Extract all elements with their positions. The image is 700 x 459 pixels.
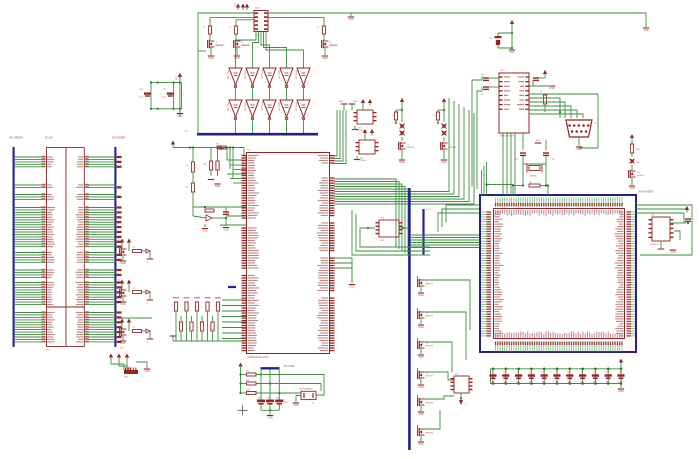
svg-text:74HC14N: 74HC14N <box>278 102 280 111</box>
svg-text:GND: GND <box>509 52 514 54</box>
svg-text:GND: GND <box>629 188 634 190</box>
svg-text:74HC14N: 74HC14N <box>295 102 297 111</box>
svg-text:GND: GND <box>418 387 423 389</box>
svg-text:GND: GND <box>339 101 344 103</box>
svg-text:C5: C5 <box>529 372 531 374</box>
svg-text:C12: C12 <box>619 372 622 374</box>
svg-text:GND: GND <box>618 391 623 393</box>
svg-text:C25: C25 <box>258 398 261 400</box>
svg-text:100n: 100n <box>541 381 545 383</box>
svg-text:C6: C6 <box>542 372 544 374</box>
svg-text:GND: GND <box>441 162 446 164</box>
svg-text:GND: GND <box>223 230 228 232</box>
svg-text:C8: C8 <box>567 372 569 374</box>
svg-text:BSP296: BSP296 <box>407 147 415 149</box>
svg-text:GND: GND <box>418 295 423 297</box>
svg-text:C3: C3 <box>503 372 505 374</box>
svg-text:GND: GND <box>418 414 423 416</box>
svg-text:JP3 JUMP: JP3 JUMP <box>284 366 295 368</box>
svg-text:100n: 100n <box>618 381 622 383</box>
svg-text:GND: GND <box>536 140 541 142</box>
svg-text:100n: 100n <box>580 381 584 383</box>
svg-text:GND: GND <box>353 101 358 103</box>
svg-text:BSP296: BSP296 <box>426 284 434 286</box>
svg-text:GND: GND <box>418 357 423 359</box>
svg-text:100n: 100n <box>490 381 494 383</box>
svg-text:GND: GND <box>349 287 354 289</box>
svg-text:GND: GND <box>549 88 554 90</box>
svg-text:GND: GND <box>576 149 581 151</box>
svg-text:C9: C9 <box>580 372 582 374</box>
svg-text:GND: GND <box>418 327 423 329</box>
svg-text:74HC14N: 74HC14N <box>244 70 246 79</box>
svg-text:GND: GND <box>120 263 125 265</box>
svg-text:100n: 100n <box>605 381 609 383</box>
svg-text:74HC14N: 74HC14N <box>295 70 297 79</box>
svg-text:TPIC6B: TPIC6B <box>359 160 366 162</box>
svg-text:PC104: PC104 <box>45 137 53 140</box>
svg-text:SIC ADJ F: SIC ADJ F <box>650 243 660 246</box>
svg-text:GND: GND <box>177 116 182 118</box>
svg-text:GND: GND <box>120 343 125 345</box>
svg-text:GND: GND <box>202 231 207 233</box>
svg-text:74HC14N: 74HC14N <box>227 102 229 111</box>
svg-text:100n: 100n <box>529 381 533 383</box>
svg-text:C4: C4 <box>516 372 518 374</box>
svg-text:BSP296: BSP296 <box>449 147 457 149</box>
svg-text:JP14 HEDER: JP14 HEDER <box>638 191 653 194</box>
svg-text:C2: C2 <box>491 372 493 374</box>
svg-text:TPIC6B: TPIC6B <box>357 130 364 132</box>
svg-text:GND: GND <box>399 162 404 164</box>
svg-text:JP2 HEDER: JP2 HEDER <box>112 137 126 140</box>
svg-text:BSS123: BSS123 <box>330 45 338 47</box>
svg-text:GND: GND <box>267 418 272 420</box>
svg-text:74HC14N: 74HC14N <box>261 70 263 79</box>
svg-text:C10: C10 <box>593 372 596 374</box>
svg-text:C26: C26 <box>267 398 270 400</box>
svg-text:GND: GND <box>348 19 353 21</box>
svg-text:100n: 100n <box>284 402 288 404</box>
svg-text:20MHz: 20MHz <box>530 176 536 178</box>
svg-text:BSS123: BSS123 <box>637 175 645 177</box>
svg-text:74HC14N: 74HC14N <box>227 70 229 79</box>
svg-text:100n: 100n <box>567 381 571 383</box>
svg-text:LED: LED <box>636 162 640 164</box>
svg-text:GND: GND <box>215 186 220 188</box>
svg-text:BSS123: BSS123 <box>216 45 224 47</box>
svg-text:100n: 100n <box>516 381 520 383</box>
svg-text:GND: GND <box>144 371 149 373</box>
svg-text:74HC14N: 74HC14N <box>244 102 246 111</box>
svg-text:74HC14N: 74HC14N <box>278 70 280 79</box>
svg-text:JP1 HEDER: JP1 HEDER <box>9 137 23 140</box>
svg-text:100n: 100n <box>503 381 507 383</box>
svg-text:GND: GND <box>208 58 213 60</box>
svg-text:C27: C27 <box>276 398 279 400</box>
svg-text:BSP296: BSP296 <box>426 376 434 378</box>
svg-text:BSP296: BSP296 <box>426 346 434 348</box>
svg-text:C11: C11 <box>606 372 609 374</box>
svg-text:BSP296: BSP296 <box>426 433 434 435</box>
svg-text:AT89C51AC2-RLI: AT89C51AC2-RLI <box>248 355 269 359</box>
svg-text:GND: GND <box>293 405 298 407</box>
svg-text:100n: 100n <box>593 381 597 383</box>
svg-text:GND: GND <box>322 58 327 60</box>
svg-text:GND: GND <box>670 252 675 254</box>
svg-text:74HC14N: 74HC14N <box>261 102 263 111</box>
svg-text:C7: C7 <box>555 372 557 374</box>
svg-text:BSP296: BSP296 <box>426 403 434 405</box>
svg-text:SW PUSHBUT: SW PUSHBUT <box>299 389 313 391</box>
svg-text:VCC: VCC <box>176 75 178 80</box>
svg-text:GND: GND <box>643 30 648 32</box>
svg-text:1: 1 <box>121 369 123 370</box>
svg-text:BSP296: BSP296 <box>426 316 434 318</box>
svg-text:BSS123: BSS123 <box>242 45 250 47</box>
svg-text:100n: 100n <box>554 381 558 383</box>
svg-text:GND: GND <box>418 444 423 446</box>
svg-text:GND: GND <box>120 304 125 306</box>
